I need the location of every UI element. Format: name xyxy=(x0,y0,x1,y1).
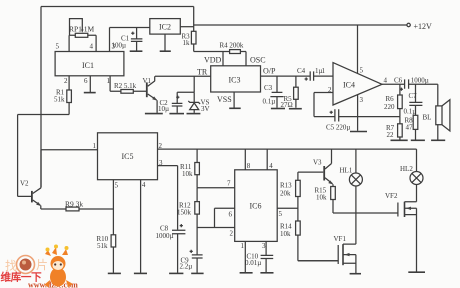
resistor R3 xyxy=(191,31,196,44)
resistor R8 xyxy=(413,115,418,139)
svg-text:0.01µ: 0.01µ xyxy=(245,259,261,267)
wire R12 branch xyxy=(196,188,198,255)
svg-text:C6: C6 xyxy=(394,76,403,84)
svg-text:10k: 10k xyxy=(316,193,327,201)
svg-text:R4 200k: R4 200k xyxy=(220,41,244,49)
svg-text:C7: C7 xyxy=(409,92,418,100)
wire IC3 VSS xyxy=(233,92,235,108)
ground C3 xyxy=(271,108,285,110)
resistor R7 xyxy=(398,117,403,140)
node +12V terminal xyxy=(407,23,410,26)
capacitor C10 xyxy=(261,255,274,272)
svg-text:IC4: IC4 xyxy=(343,81,355,90)
svg-text:RP1 1M: RP1 1M xyxy=(69,25,95,34)
resistor R14 xyxy=(296,221,301,235)
capacitor C8 xyxy=(172,224,185,273)
svg-text:IC6: IC6 xyxy=(250,202,262,211)
resistor R6 xyxy=(398,84,403,116)
wire IC4 pin3 xyxy=(357,95,359,131)
svg-text:5: 5 xyxy=(56,43,60,51)
capacitor C1 xyxy=(131,28,143,51)
svg-text:2: 2 xyxy=(328,86,332,94)
mosfet VF2 xyxy=(398,202,417,272)
wire IC6 pin8 xyxy=(244,149,246,170)
wire IC2 right xyxy=(180,26,193,28)
resistor R4 xyxy=(230,50,241,54)
zener VS xyxy=(188,92,200,113)
svg-text:O/P: O/P xyxy=(263,67,276,76)
ground IC6 pin1 xyxy=(240,272,253,274)
wire IC1 pin6 xyxy=(89,76,91,92)
resistor R11 xyxy=(195,163,200,175)
resistor R12 xyxy=(195,202,200,215)
ground C1 xyxy=(130,50,143,52)
svg-text:C4: C4 xyxy=(297,67,306,75)
ground IC5 pin4 xyxy=(134,272,147,274)
svg-text:VF1: VF1 xyxy=(334,235,347,243)
capacitor C9 xyxy=(190,250,203,273)
resistor R13 xyxy=(296,180,301,196)
ground IC2 xyxy=(160,50,171,52)
resistor R10 xyxy=(111,235,116,247)
svg-text:1: 1 xyxy=(322,67,326,75)
svg-text:IC1: IC1 xyxy=(82,61,94,70)
svg-text:HL2: HL2 xyxy=(400,165,413,173)
lamp HL1 xyxy=(349,149,362,244)
svg-text:1k: 1k xyxy=(183,39,191,47)
ic IC6 xyxy=(235,170,278,242)
svg-text:VSS: VSS xyxy=(217,95,232,104)
svg-text:VF2: VF2 xyxy=(385,192,398,200)
ground VF2 xyxy=(408,271,425,273)
svg-text:5: 5 xyxy=(279,210,283,218)
wire R11 branch xyxy=(196,149,198,188)
wire IC4 pin2 loop xyxy=(314,93,335,117)
svg-text:R2 5.1k: R2 5.1k xyxy=(114,82,137,90)
wire IC5 pin4 xyxy=(140,180,142,273)
svg-text:22: 22 xyxy=(387,131,395,139)
resistor R9 xyxy=(66,207,79,211)
svg-text:5: 5 xyxy=(115,182,119,190)
wire IC6 pin4 xyxy=(266,149,268,170)
wire R9 to R10 xyxy=(79,208,113,210)
svg-text:2: 2 xyxy=(159,142,163,150)
svg-text:IC3: IC3 xyxy=(229,76,241,85)
svg-text:51k: 51k xyxy=(97,242,108,250)
ground C8 xyxy=(169,272,183,274)
potentiometer RP1 xyxy=(69,19,96,52)
capacitor C6 xyxy=(400,79,409,90)
ground C9 xyxy=(191,272,203,274)
svg-text:0.1µ: 0.1µ xyxy=(263,98,276,106)
wire IC1 pin3 xyxy=(109,28,111,52)
capacitor C2 xyxy=(172,92,183,113)
wire IC6 pin1 xyxy=(244,241,246,272)
svg-text:V3: V3 xyxy=(313,158,322,166)
svg-text:HL1: HL1 xyxy=(340,166,353,174)
svg-text:2: 2 xyxy=(64,77,68,85)
capacitor C5 xyxy=(330,109,339,121)
wire IC1 pin1 / R2 xyxy=(110,76,146,92)
svg-text:47: 47 xyxy=(406,123,414,131)
svg-text:1: 1 xyxy=(241,242,245,250)
ground C10 xyxy=(260,272,273,274)
lamp HL2 xyxy=(410,149,423,202)
wire VDD feed xyxy=(194,52,246,66)
svg-text:3V: 3V xyxy=(201,105,210,113)
capacitor C7 xyxy=(409,84,422,115)
ground IC4 pin3 xyxy=(350,131,367,133)
svg-text:1000µ: 1000µ xyxy=(156,232,174,240)
svg-text:BL: BL xyxy=(423,113,432,121)
svg-text:+12V: +12V xyxy=(414,22,433,31)
ground VF1 xyxy=(350,273,361,275)
svg-text:10µ: 10µ xyxy=(158,105,169,113)
svg-text:R13: R13 xyxy=(280,182,292,190)
svg-text:3: 3 xyxy=(112,43,116,51)
ground R10 xyxy=(108,272,121,274)
ic IC2 xyxy=(150,19,181,34)
svg-text:6: 6 xyxy=(84,77,88,85)
svg-text:4: 4 xyxy=(90,43,94,51)
svg-text:R6: R6 xyxy=(386,95,395,103)
svg-text:VDD: VDD xyxy=(204,56,222,65)
svg-text:8: 8 xyxy=(247,162,251,170)
wire IC4 output xyxy=(382,84,438,106)
wire IC1 pin2 / R1 xyxy=(18,76,70,197)
ground VSS xyxy=(229,107,241,109)
svg-text:20k: 20k xyxy=(280,189,291,197)
ic IC1 xyxy=(55,52,124,76)
wire TR node xyxy=(155,76,211,92)
transistor V2 xyxy=(32,150,66,209)
svg-text:V1: V1 xyxy=(143,77,152,85)
wire +12V rail xyxy=(194,24,407,26)
svg-text:3: 3 xyxy=(262,242,266,250)
wire IC5 pin2 rail xyxy=(158,148,417,150)
mosfet VF1 xyxy=(298,244,356,273)
wire R15 to gates xyxy=(333,200,398,214)
capacitor C4 xyxy=(305,71,314,80)
svg-text:IC2: IC2 xyxy=(159,23,171,32)
svg-text:27Ω: 27Ω xyxy=(281,101,293,109)
svg-text:R9 3k: R9 3k xyxy=(65,199,83,208)
svg-text:C5 220µ: C5 220µ xyxy=(326,124,350,132)
wire IC6 pin3 xyxy=(265,241,267,255)
svg-text:3: 3 xyxy=(159,159,163,167)
svg-text:OSC: OSC xyxy=(250,56,266,65)
ground R8 xyxy=(411,139,425,141)
ground IC1 pin6 xyxy=(84,92,96,94)
wire IC6 pin7 xyxy=(197,187,235,189)
svg-text:6: 6 xyxy=(229,211,233,219)
svg-text:片: 片 xyxy=(36,258,48,272)
resistor R1 xyxy=(67,90,72,103)
svg-text:5: 5 xyxy=(360,66,364,74)
svg-text:TR: TR xyxy=(197,67,208,76)
wire IC6 pin6 xyxy=(215,208,235,227)
wire R3 branch xyxy=(193,7,195,52)
ic IC3 xyxy=(211,66,261,92)
watermark dzsc logo xyxy=(1,245,79,288)
speaker BL xyxy=(436,100,450,140)
svg-text:10k: 10k xyxy=(280,230,291,238)
svg-text:2.2µ: 2.2µ xyxy=(180,262,193,270)
wire IC2 gnd pin xyxy=(164,34,166,51)
ic IC5 xyxy=(98,133,158,180)
svg-text:找: 找 xyxy=(5,259,17,273)
wire IC5 pin5 / R10 xyxy=(112,180,114,273)
svg-text:1: 1 xyxy=(107,77,111,85)
wire IC6 pin2 xyxy=(197,227,235,229)
svg-text:10k: 10k xyxy=(182,170,193,178)
svg-text:V2: V2 xyxy=(20,179,29,187)
ground R5 xyxy=(289,108,302,110)
wire O/P xyxy=(261,75,334,77)
wire IC2 left xyxy=(110,27,150,29)
wire +12V top feed xyxy=(41,7,194,188)
op-amp IC4 xyxy=(333,63,382,105)
wire IC4 pin5 xyxy=(357,25,359,73)
resistor R2 xyxy=(121,90,133,94)
svg-text:51k: 51k xyxy=(54,96,65,104)
svg-text:7: 7 xyxy=(227,180,231,188)
transistor V3 xyxy=(298,149,333,187)
ground V1 xyxy=(145,113,163,115)
wire R13 branch xyxy=(298,172,338,261)
capacitor C3 xyxy=(270,76,283,108)
svg-text:3: 3 xyxy=(360,96,364,104)
ground R7 xyxy=(391,139,408,141)
wire C5 to R6R7 xyxy=(339,116,400,118)
svg-text:2: 2 xyxy=(230,230,234,238)
transistor V1 xyxy=(147,76,158,113)
wire IC5 pin3 xyxy=(158,166,178,230)
svg-text:1: 1 xyxy=(93,142,97,150)
svg-text:IC5: IC5 xyxy=(122,152,134,161)
wire IC6 pin5 xyxy=(277,207,298,209)
ground BL xyxy=(431,139,445,141)
svg-text:0.1µ: 0.1µ xyxy=(404,107,417,115)
svg-text:4: 4 xyxy=(269,162,273,170)
ground VS xyxy=(187,113,201,115)
svg-text:1000µ: 1000µ xyxy=(411,76,429,84)
ground C2 xyxy=(169,113,184,115)
svg-text:150k: 150k xyxy=(177,208,192,216)
svg-text:C3: C3 xyxy=(264,84,273,92)
wire IC5 pin1 xyxy=(41,149,98,151)
svg-text:4: 4 xyxy=(142,181,146,189)
svg-text:220: 220 xyxy=(384,103,395,111)
resistor R5 xyxy=(294,76,299,108)
resistor R15 xyxy=(331,187,336,200)
svg-text:4: 4 xyxy=(384,76,388,84)
